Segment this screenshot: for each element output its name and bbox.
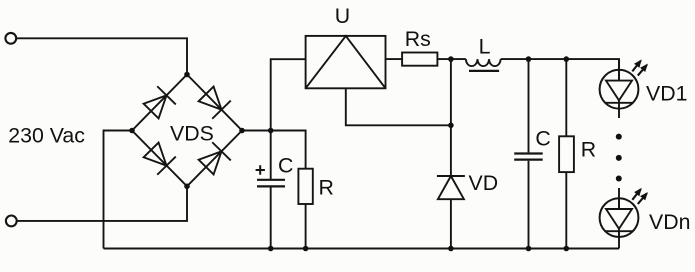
svg-text:L: L [479, 34, 491, 58]
svg-text:VD: VD [469, 171, 499, 195]
svg-text:VD1: VD1 [646, 82, 687, 106]
svg-text:R: R [581, 137, 596, 161]
svg-text:C: C [535, 127, 550, 151]
svg-text:C: C [278, 154, 293, 178]
svg-text:VDn: VDn [649, 210, 690, 234]
svg-text:R: R [319, 176, 334, 200]
svg-text:Rs: Rs [405, 27, 431, 51]
svg-text:230 Vac: 230 Vac [8, 123, 85, 147]
svg-text:VDS: VDS [170, 121, 214, 145]
svg-text:U: U [335, 4, 350, 28]
